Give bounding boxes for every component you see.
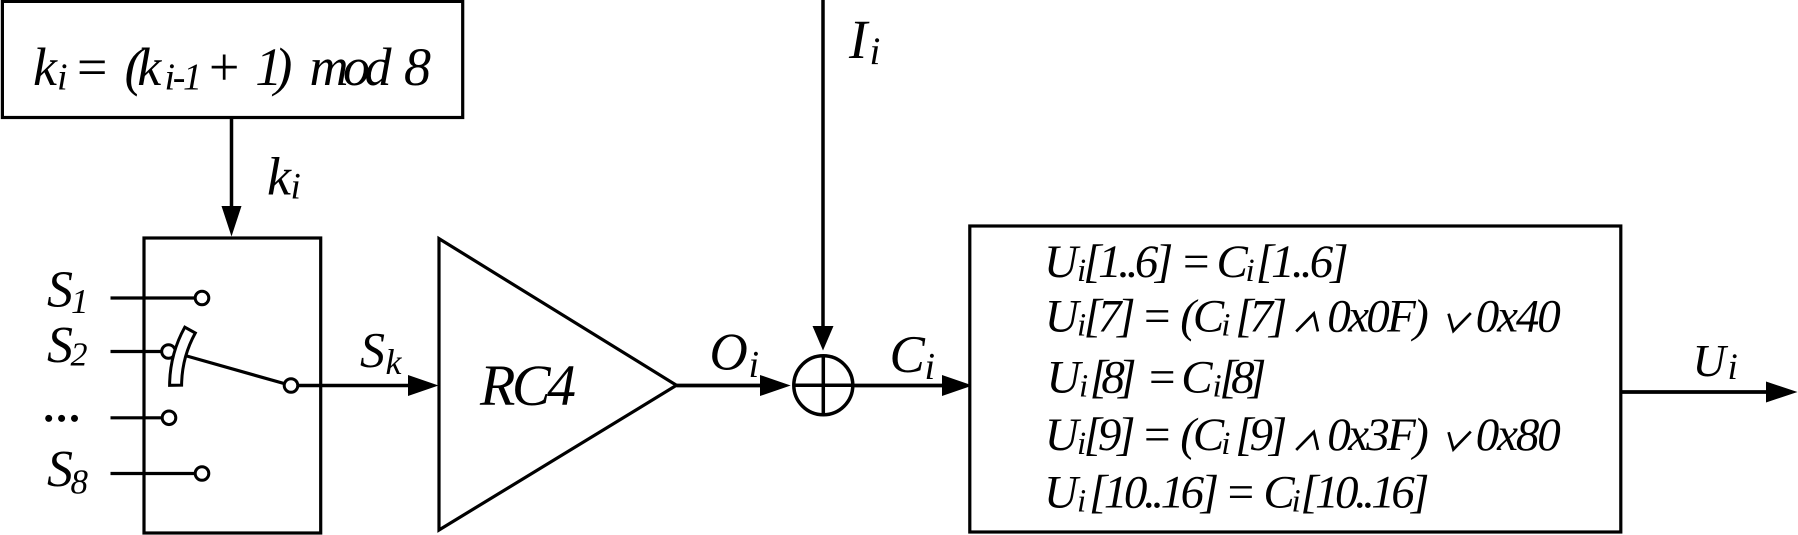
svg-text:i: i <box>749 344 760 386</box>
label U_i <box>1693 335 1738 388</box>
svg-text:0x80: 0x80 <box>1476 409 1561 461</box>
svg-text:S: S <box>47 441 73 498</box>
formula line 2: U_i[7] = (C_i [7] AND 0x0F) OR 0x40 <box>1045 291 1288 344</box>
svg-text:i: i <box>57 57 68 99</box>
label S_1 <box>47 262 89 321</box>
switch wiper arc <box>170 327 196 385</box>
svg-text:i-1: i-1 <box>165 57 203 99</box>
svg-text:S: S <box>47 317 73 374</box>
svg-text:i: i <box>291 167 301 208</box>
svg-text:2: 2 <box>71 337 88 374</box>
svg-text:i: i <box>925 346 936 388</box>
svg-text:U: U <box>1044 236 1081 288</box>
wire: k_i arrow from formula box to selector <box>230 118 234 209</box>
formula line 1: U_i[1..6] = C_i[1..6] <box>1044 236 1349 289</box>
svg-text:[8]: [8] <box>1219 352 1266 404</box>
wire S_2 <box>111 350 163 353</box>
XOR gate <box>794 356 853 415</box>
svg-text:C: C <box>1217 236 1249 288</box>
svg-text:[7]: [7] <box>1084 291 1136 343</box>
svg-text:RC4: RC4 <box>479 353 576 418</box>
label I_i <box>848 9 880 73</box>
label S_2 <box>47 317 88 374</box>
svg-text:1: 1 <box>71 282 89 321</box>
contact S_8 <box>195 467 209 481</box>
svg-text:S: S <box>360 322 385 378</box>
svg-text:=: = <box>74 37 110 97</box>
svg-text:=: = <box>1141 409 1173 461</box>
formula line 4: U_i[9] = (C_i [9] AND 0x3F) OR 0x80 <box>1045 409 1288 462</box>
label C_i <box>890 326 936 388</box>
wire I_i input from top <box>821 0 825 328</box>
svg-text:0x0F): 0x0F) <box>1327 291 1429 343</box>
label S_8 <box>47 441 89 501</box>
contact ... <box>162 411 176 425</box>
AND wedge line 2 <box>1296 314 1318 332</box>
wire S_1 <box>111 296 196 299</box>
svg-text:U: U <box>1044 467 1081 519</box>
svg-text:i: i <box>1077 484 1086 520</box>
wire C_i from XOR to output box <box>853 384 944 388</box>
svg-text:k: k <box>33 37 58 97</box>
svg-text:S: S <box>47 262 73 319</box>
output mapping box <box>970 226 1621 532</box>
wire S_k with arrow into RC4 <box>298 384 410 388</box>
svg-text:[10..16]: [10..16] <box>1300 467 1429 519</box>
svg-text:i: i <box>1221 308 1230 344</box>
svg-text:8: 8 <box>71 462 89 501</box>
svg-text:k: k <box>386 342 403 382</box>
svg-text:I: I <box>848 9 870 70</box>
svg-text:C: C <box>1181 352 1213 404</box>
svg-text:+: + <box>206 37 242 97</box>
svg-text:=: = <box>1225 467 1257 519</box>
label S_k <box>360 322 403 383</box>
svg-text:=: = <box>1141 291 1173 343</box>
block: key index formula box <box>2 1 462 117</box>
OR wedge line 2 <box>1449 313 1471 331</box>
formula line 3: U_i[8] = C_i[8] <box>1047 352 1267 405</box>
label O_i <box>710 324 760 387</box>
wire U_i output <box>1621 390 1768 394</box>
label: k_i = (k_i-1 + 1) mod 8 <box>33 37 431 99</box>
svg-text:0x3F): 0x3F) <box>1327 409 1429 461</box>
formula line 5: U_i[10..16] = C_i[10..16] <box>1044 467 1429 520</box>
svg-text:U: U <box>1693 335 1729 386</box>
svg-text:C: C <box>890 326 926 384</box>
svg-text:i: i <box>1728 347 1738 388</box>
label k_i <box>267 147 301 208</box>
svg-text:[9]: [9] <box>1235 409 1287 461</box>
svg-text:[9]: [9] <box>1084 409 1136 461</box>
svg-text:i: i <box>870 30 881 73</box>
svg-text:(C: (C <box>1180 409 1225 461</box>
svg-text:=: = <box>1146 352 1178 404</box>
contact S_1 <box>195 291 209 305</box>
svg-text:[7]: [7] <box>1235 291 1287 343</box>
svg-text:[1..6]: [1..6] <box>1256 236 1349 288</box>
svg-text:8: 8 <box>404 37 431 97</box>
wire O_i from RC4 to XOR <box>677 384 763 388</box>
AND wedge line 4 <box>1296 432 1318 450</box>
svg-text:i: i <box>1221 426 1230 462</box>
contact S_2 (pivot) <box>162 345 176 359</box>
svg-text:[1..6]: [1..6] <box>1083 236 1173 288</box>
svg-text:k: k <box>267 147 292 207</box>
wire S_8 <box>111 472 196 475</box>
svg-text:=: = <box>1180 236 1212 288</box>
svg-text:O: O <box>710 324 748 382</box>
RC4 block (triangle) <box>439 239 677 530</box>
svg-text:i: i <box>1292 484 1301 520</box>
label ... (ellipsis) <box>45 415 78 422</box>
svg-text:1): 1) <box>255 37 292 97</box>
svg-text:[10..16]: [10..16] <box>1089 467 1219 519</box>
OR wedge line 4 <box>1449 432 1471 450</box>
selector (rotary switch) box <box>144 238 321 533</box>
output contact <box>284 379 298 393</box>
svg-text:(C: (C <box>1180 291 1225 343</box>
svg-text:mod: mod <box>310 37 393 97</box>
svg-text:i: i <box>1246 253 1255 289</box>
svg-text:[8]: [8] <box>1090 352 1137 404</box>
svg-text:0x40: 0x40 <box>1476 291 1561 343</box>
svg-text:U: U <box>1047 352 1084 404</box>
wiper arm wire to output contact <box>185 356 291 386</box>
svg-text:i: i <box>1079 369 1088 405</box>
wire ... <box>111 416 163 419</box>
svg-text:k: k <box>137 37 162 97</box>
